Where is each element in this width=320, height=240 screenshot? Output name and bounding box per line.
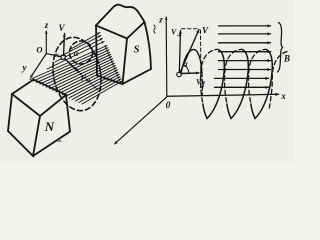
svg-text:z: z bbox=[44, 20, 49, 30]
field line L10 (between poles) bbox=[59, 65, 115, 93]
velocity vector V (left) bbox=[63, 34, 66, 56]
x-axis (right) bbox=[168, 93, 279, 97]
helix initial arc (loop 0) bbox=[181, 49, 202, 95]
squiggle artifact right of S cube bbox=[154, 25, 155, 33]
particle (right) bbox=[177, 72, 181, 76]
brace for B bbox=[278, 23, 284, 73]
field line L3 (between poles) bbox=[37, 50, 109, 83]
field line L14 (between poles) bbox=[72, 74, 119, 99]
B field line 4 bbox=[219, 50, 271, 53]
helix loop 3 bbox=[249, 49, 273, 118]
field line L5 (between poles) bbox=[43, 54, 111, 85]
field line L16 (between poles) bbox=[79, 79, 121, 103]
B field line 1 bbox=[219, 24, 271, 27]
field line L13 (between poles) bbox=[69, 72, 118, 98]
y-axis (right, oblique) bbox=[115, 96, 168, 144]
B field line 5 bbox=[219, 59, 271, 62]
field line L9 (between poles) bbox=[56, 63, 115, 92]
field line U3 (upper bundle) bbox=[62, 36, 101, 56]
helix loop 1 bbox=[201, 49, 225, 118]
charged particle (left) bbox=[61, 55, 65, 59]
magnet S pole (cube) bbox=[96, 5, 151, 84]
field line L1 (between poles) bbox=[30, 45, 107, 79]
field line L6 (between poles) bbox=[46, 57, 112, 88]
z-axis (right) bbox=[165, 17, 168, 96]
svg-text:B: B bbox=[283, 54, 290, 64]
paper grain overlay bbox=[0, 0, 294, 162]
field line L4 (between poles) bbox=[40, 52, 110, 84]
helix loop 2 bbox=[225, 49, 249, 118]
tiny scan artifact on N face bbox=[58, 140, 61, 143]
dashed helix loop (large tilted ellipse, left) bbox=[47, 33, 106, 114]
B field line 3 bbox=[219, 41, 271, 44]
vector V (right) bbox=[181, 30, 200, 72]
dashed projection top edge bbox=[182, 28, 198, 30]
field line U1 (upper bundle) bbox=[47, 41, 104, 69]
svg-text:z: z bbox=[158, 15, 163, 25]
B field line 8 bbox=[215, 86, 269, 89]
z-axis (left) bbox=[45, 31, 48, 54]
svg-text:α: α bbox=[74, 49, 79, 58]
dashed projection vertical bbox=[200, 30, 203, 96]
B field line 7 bbox=[215, 77, 269, 80]
svg-text:x: x bbox=[280, 91, 286, 101]
field line L12 (between poles) bbox=[66, 70, 118, 96]
svg-text:V: V bbox=[202, 26, 209, 36]
svg-text:V: V bbox=[58, 23, 65, 33]
field line L11 (between poles) bbox=[63, 68, 117, 95]
helix exit arc (dashed, loop 4 back) bbox=[269, 52, 287, 109]
y-axis (left) bbox=[31, 54, 47, 78]
svg-text:S: S bbox=[134, 45, 140, 56]
svg-text:0: 0 bbox=[166, 101, 171, 111]
field line L7 (between poles) bbox=[50, 59, 113, 89]
Lorentz force vector Fm bbox=[65, 59, 78, 72]
B field line 6 bbox=[219, 68, 271, 71]
field line U2 (upper bundle) bbox=[55, 38, 103, 62]
vector V-perp (right) bbox=[179, 31, 182, 73]
magnet N pole (cube) bbox=[8, 80, 70, 157]
field line L15 (between poles) bbox=[76, 77, 121, 101]
field line L17 (between poles) bbox=[82, 81, 122, 104]
field line L2 (between poles) bbox=[33, 48, 108, 82]
field line U4 (upper bundle) bbox=[70, 33, 100, 50]
svg-text:N: N bbox=[44, 119, 55, 134]
B field line 2 bbox=[219, 32, 271, 35]
angle arc alpha (right) bbox=[183, 65, 189, 74]
vector V-parallel (right) bbox=[181, 71, 199, 74]
x-axis (left) bbox=[46, 54, 61, 58]
dashed orbit circle (first loop, left) bbox=[70, 41, 93, 64]
field line L8 (between poles) bbox=[53, 61, 114, 90]
svg-text:O: O bbox=[36, 45, 42, 55]
